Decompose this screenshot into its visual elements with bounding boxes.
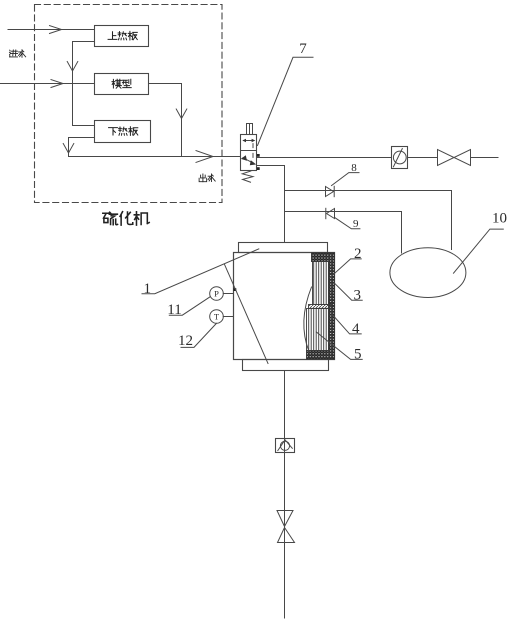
label 12 (178, 324, 216, 350)
wire tank bottom pipe (284, 371, 286, 619)
wire branch to check valve 8 (285, 191, 452, 250)
svg-text:10: 10 (492, 210, 507, 226)
valve V7 solenoid stem (247, 124, 253, 135)
wire lower plate outlet (69, 138, 95, 157)
wire mold outlet right (149, 84, 182, 157)
valve V7 spring (242, 171, 253, 182)
svg-text:P: P (214, 288, 219, 298)
arrow inlet 1 (50, 26, 62, 34)
label 8 (332, 162, 360, 185)
filter tank bottom flange (243, 360, 329, 371)
filter element lower section (307, 309, 329, 351)
filter cage crosshatch frame (307, 253, 335, 359)
label 7 (258, 41, 314, 146)
arrow down v1 (67, 62, 78, 72)
svg-text:1: 1 (144, 281, 152, 297)
label 3 (334, 283, 362, 304)
label 10 (454, 210, 508, 273)
label 2 (330, 246, 362, 278)
valve V7 top cell double arrow (242, 139, 255, 148)
flow meter FM1 (392, 147, 408, 169)
svg-text:3: 3 (354, 288, 362, 304)
gate valve GV2 (277, 511, 295, 543)
svg-text:7: 7 (299, 41, 307, 57)
filter tank top flange (239, 243, 328, 253)
svg-text:12: 12 (178, 333, 193, 349)
junction dot port B (257, 167, 260, 170)
wire outlet main 出水 (69, 156, 241, 158)
gate valve GV1 (438, 150, 471, 166)
valve V7 body (241, 135, 257, 171)
check valve CV8 (326, 186, 335, 196)
arrow down v3 (176, 109, 187, 119)
filter divider (309, 305, 332, 309)
arrow inlet 2 (51, 80, 63, 88)
label 出水 (199, 174, 215, 182)
label 9 (335, 218, 360, 231)
label 11 (167, 297, 210, 318)
flow meter FM2 (276, 439, 295, 453)
filter element upper section (313, 262, 329, 305)
junction dot port A (257, 154, 260, 157)
arrow outlet (196, 151, 213, 163)
wire GV1 to edge (471, 157, 499, 159)
water tank ellipse 10 (390, 248, 466, 298)
svg-text:T: T (214, 311, 220, 321)
filter bag arc (304, 287, 312, 352)
label 5 (316, 332, 362, 363)
svg-text:2: 2 (354, 246, 362, 262)
label 4 (333, 315, 361, 337)
wire FM1 to gate valve (408, 157, 438, 159)
pressure gauge P (210, 287, 234, 301)
wire inlet 1 (8, 29, 95, 31)
svg-text:5: 5 (354, 347, 362, 363)
box lower hot plate 下热板 (95, 121, 151, 143)
label 1 (142, 249, 268, 364)
check valve CV9 (326, 208, 335, 218)
wire valve to flow meter (257, 157, 392, 159)
wire valve port B down to tank (257, 166, 285, 243)
label 进水 (9, 50, 25, 58)
filter tank body (234, 253, 335, 360)
box mold 模型 (95, 74, 149, 95)
wire branch to check valve 9 (285, 212, 402, 254)
arrow down v2 (63, 144, 74, 154)
vulcanizer dashed enclosure (35, 5, 223, 203)
temperature gauge T (210, 310, 234, 324)
junction dot tank wall (234, 288, 237, 291)
svg-text:4: 4 (352, 321, 360, 337)
wire inlet 2 (0, 83, 95, 85)
valve V7 bottom cell flow path (241, 153, 256, 165)
wire upper plate to lower plate (73, 42, 95, 126)
label 硫化机 (vulcanizer) (103, 212, 149, 225)
box upper hot plate 上热板 (95, 26, 149, 47)
